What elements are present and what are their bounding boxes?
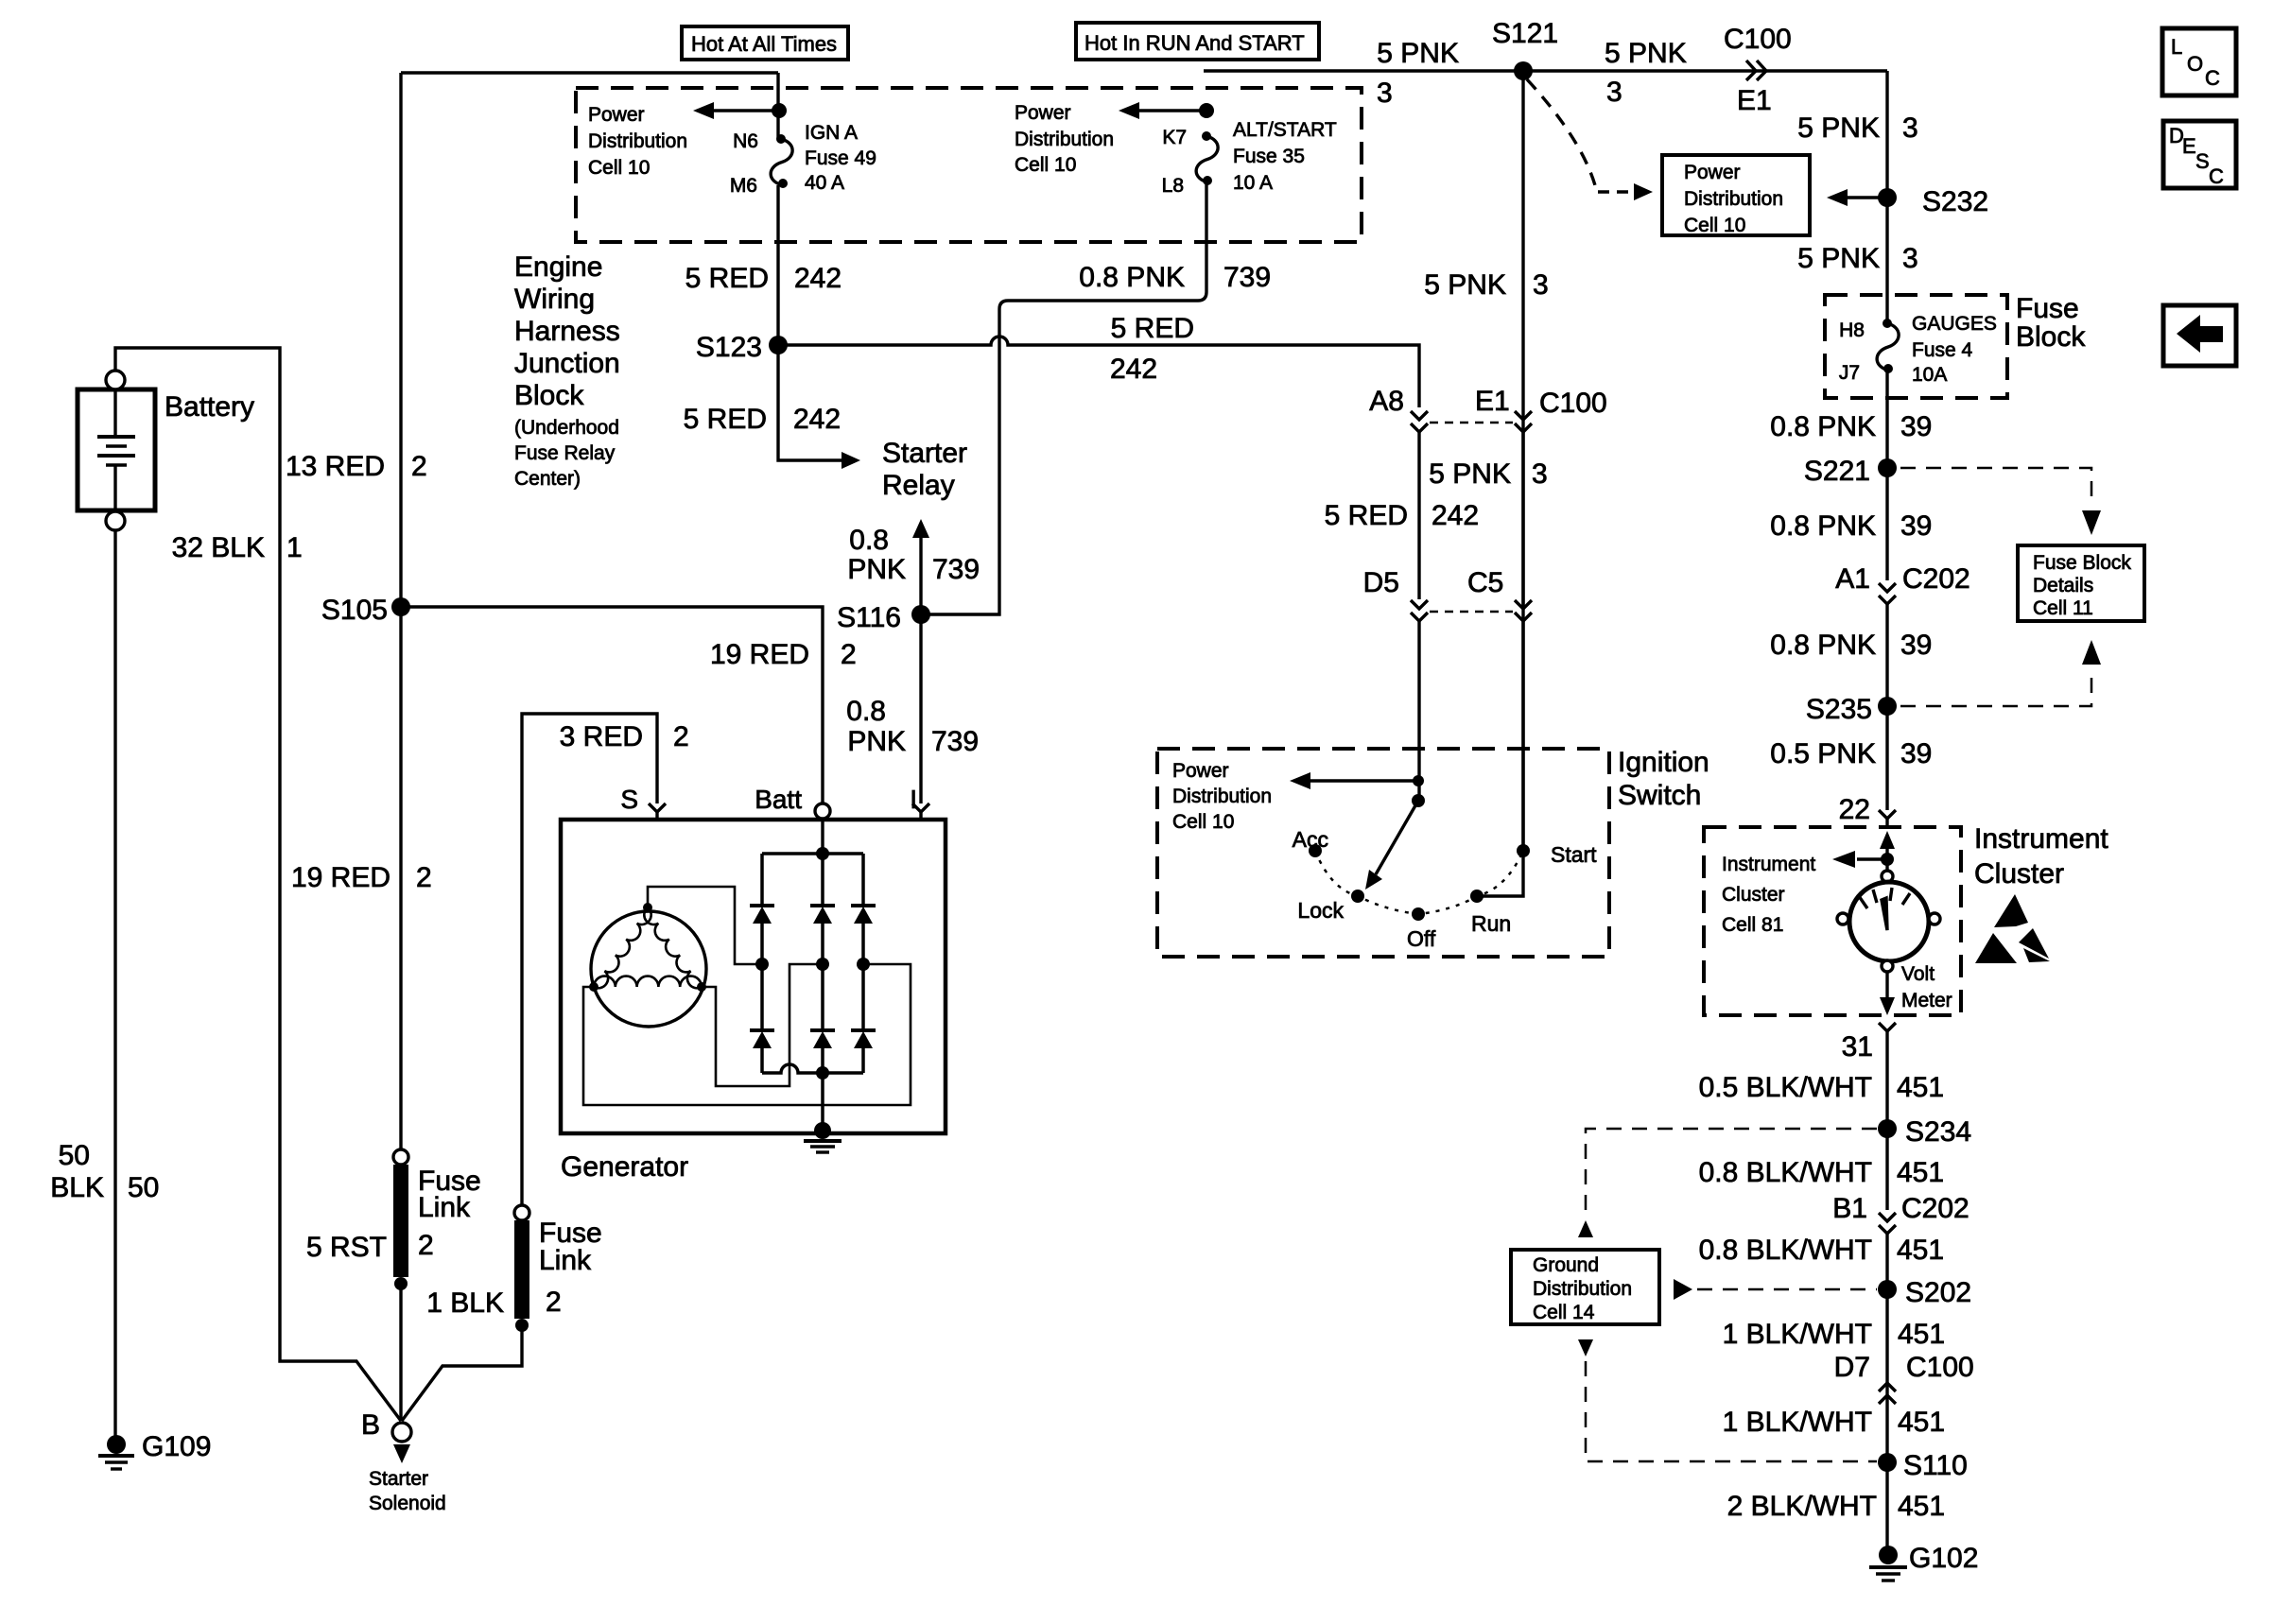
svg-text:5 RED: 5 RED: [685, 263, 769, 294]
svg-text:10 A: 10 A: [1233, 172, 1273, 194]
connector C100 chevrons on wire: [1746, 60, 1756, 80]
svg-text:Power: Power: [588, 104, 645, 126]
svg-text:Starter: Starter: [369, 1468, 428, 1490]
svg-text:2: 2: [841, 639, 857, 670]
svg-text:0.5 PNK: 0.5 PNK: [1770, 738, 1876, 769]
svg-text:Distribution: Distribution: [1172, 786, 1272, 807]
diode D2 top-middle: [821, 854, 824, 906]
svg-text:Cell 10: Cell 10: [588, 157, 650, 179]
svg-text:Hot At All Times: Hot At All Times: [691, 32, 837, 56]
svg-text:Distribution: Distribution: [1015, 129, 1114, 150]
svg-text:13 RED: 13 RED: [286, 451, 385, 482]
connector pin 31: [1879, 1023, 1896, 1031]
svg-text:451: 451: [1897, 1157, 1944, 1188]
svg-text:3: 3: [1902, 112, 1918, 144]
wire 13 RED 2 vertical from top feed to S105: [399, 73, 402, 1149]
svg-text:Fuse: Fuse: [2016, 293, 2079, 324]
svg-text:Details: Details: [2033, 575, 2093, 596]
wire S123 to A8 connector (5 RED 242) with hop over pink wire: [778, 337, 1419, 407]
wire top feed hot in run and start: [1204, 69, 1887, 72]
node S110: [1878, 1453, 1897, 1472]
component ground distribution box: [1511, 1250, 1659, 1324]
svg-text:5 RED: 5 RED: [1325, 500, 1408, 531]
ground G102: [1879, 1546, 1898, 1564]
node S105: [391, 597, 410, 616]
svg-text:D7: D7: [1834, 1352, 1870, 1383]
svg-text:PNK: PNK: [847, 726, 906, 757]
svg-text:19 RED: 19 RED: [291, 862, 390, 893]
dashed link S235 to fuse block details: [1900, 673, 2091, 706]
svg-text:Hot In RUN And START: Hot In RUN And START: [1084, 31, 1305, 55]
diode D1 top-left: [760, 854, 764, 906]
ignition contact Off: [1412, 907, 1425, 921]
svg-text:Harness: Harness: [514, 316, 620, 347]
generator winding lead bottom-right to middle diode mid: [702, 964, 823, 1086]
svg-text:C100: C100: [1906, 1352, 1974, 1383]
svg-text:0.8 PNK: 0.8 PNK: [1079, 262, 1185, 293]
svg-text:Power: Power: [1684, 162, 1741, 183]
svg-text:Start: Start: [1551, 842, 1597, 867]
ignition contact Lock: [1351, 890, 1364, 903]
svg-text:451: 451: [1898, 1491, 1945, 1522]
node S116: [911, 605, 930, 624]
svg-text:ALT/START: ALT/START: [1233, 119, 1337, 141]
symbol DESC box: [2163, 121, 2236, 188]
svg-text:3 RED: 3 RED: [560, 721, 643, 752]
svg-text:22: 22: [1839, 794, 1870, 825]
wire 5 PNK 3 from S121 down to ignition switch: [1521, 71, 1524, 851]
wire arrow to power distribution cell 10 (left): [709, 109, 779, 112]
svg-text:Block: Block: [2016, 321, 2086, 353]
svg-text:L: L: [2171, 35, 2182, 59]
wire 0.8 PNK 739 S116 down to generator I terminal: [919, 614, 922, 803]
svg-text:Instrument: Instrument: [1974, 823, 2108, 855]
wire volt meter to cluster exit: [1885, 972, 1888, 1000]
wire 0.5 BLK/WHT 451: [1885, 1038, 1888, 1129]
svg-text:A1: A1: [1835, 563, 1870, 595]
svg-text:5 RED: 5 RED: [684, 404, 767, 435]
node label Hot In RUN And START box: [1076, 23, 1319, 60]
wire 3 RED 2 generator S terminal loop: [522, 714, 657, 1205]
svg-text:0.8 BLK/WHT: 0.8 BLK/WHT: [1699, 1235, 1872, 1266]
generator terminal S connector: [649, 803, 666, 812]
volt meter gauge: [1882, 871, 1893, 882]
wire 50 BLK 50 battery negative to G109: [113, 530, 116, 1436]
svg-text:0.8: 0.8: [849, 525, 889, 556]
component fuse link (1 BLK 2): [514, 1205, 529, 1220]
svg-text:Block: Block: [514, 380, 584, 411]
svg-text:5 PNK: 5 PNK: [1797, 243, 1880, 274]
svg-text:242: 242: [794, 263, 842, 294]
wire 5 RED 242 to ignition (A8-D5): [1417, 430, 1420, 599]
svg-text:19 RED: 19 RED: [710, 639, 809, 670]
svg-text:2: 2: [418, 1230, 434, 1261]
svg-text:242: 242: [1110, 354, 1157, 385]
generator winding lead top to left diode mid: [648, 887, 762, 964]
svg-text:39: 39: [1900, 630, 1932, 661]
component instrument cluster dashed box: [1704, 827, 1961, 1015]
svg-text:Engine: Engine: [514, 251, 602, 283]
wire 5 RED 242 from fuse M6 to S123: [776, 185, 779, 345]
svg-text:5 PNK: 5 PNK: [1424, 269, 1506, 301]
wire arrow to power distribution cell 10 (middle): [1135, 109, 1206, 112]
svg-text:10A: 10A: [1912, 364, 1947, 386]
node S121: [1514, 61, 1533, 80]
svg-text:I: I: [910, 785, 917, 814]
svg-text:S116: S116: [837, 602, 901, 633]
dashed arrow S121 to power distribution cell 10 box: [1527, 79, 1595, 185]
svg-text:Relay: Relay: [882, 470, 955, 501]
svg-text:C100: C100: [1539, 388, 1607, 419]
svg-text:Off: Off: [1407, 926, 1436, 951]
svg-text:Power: Power: [1172, 760, 1229, 782]
wire 0.8 PNK 39 C202 to S235: [1885, 604, 1888, 706]
svg-text:Switch: Switch: [1618, 780, 1701, 811]
svg-text:BLK: BLK: [50, 1172, 104, 1203]
svg-text:Cell 10: Cell 10: [1015, 154, 1076, 176]
svg-text:39: 39: [1900, 510, 1932, 542]
component ignition switch dashed box: [1157, 749, 1609, 957]
svg-text:3: 3: [1902, 243, 1918, 274]
svg-text:5 PNK: 5 PNK: [1605, 38, 1687, 69]
svg-text:739: 739: [1223, 262, 1271, 293]
ignition contact Run: [1470, 890, 1484, 903]
ignition contact Acc: [1309, 844, 1322, 857]
junction dot cluster arrow tap: [1881, 853, 1894, 866]
svg-text:Power: Power: [1015, 102, 1071, 124]
svg-text:S234: S234: [1905, 1116, 1971, 1148]
battery internal symbol: [113, 389, 116, 437]
svg-text:(Underhood: (Underhood: [514, 417, 619, 439]
component fuse link (5 RST 2): [393, 1149, 408, 1165]
svg-text:C5: C5: [1467, 567, 1503, 598]
ignition contact Start: [1517, 844, 1530, 857]
svg-text:B: B: [361, 1409, 380, 1441]
ignition rotary dotted arc: [1315, 851, 1523, 914]
wire 5 RED 242 branch to starter relay: [778, 345, 849, 460]
svg-text:Center): Center): [514, 468, 581, 490]
battery terminal circle negative: [106, 511, 125, 530]
component fuse block dashed box: [1825, 295, 2007, 398]
ignition switch lever arrow: [1376, 801, 1418, 874]
svg-text:2: 2: [416, 862, 432, 893]
svg-text:D5: D5: [1363, 567, 1399, 598]
svg-text:50: 50: [128, 1172, 159, 1203]
ignition switch rotor contact: [1412, 794, 1425, 807]
wire 1 BLK/WHT 451 S202 to C100: [1885, 1289, 1888, 1405]
generator rectifier bottom rail with hop: [762, 1064, 863, 1073]
volt meter ticks and needle: [1859, 896, 1867, 908]
svg-text:Distribution: Distribution: [588, 130, 687, 152]
component Power Distribution Cell 10 box (right): [1662, 155, 1810, 235]
svg-text:S221: S221: [1804, 456, 1870, 487]
wire 0.8 BLK/WHT 451 to S202: [1885, 1234, 1888, 1289]
svg-text:Fuse Relay: Fuse Relay: [514, 442, 616, 464]
node S234: [1878, 1119, 1897, 1138]
svg-text:Fuse 35: Fuse 35: [1233, 146, 1305, 167]
diode D4 bottom-left: [760, 964, 764, 1030]
svg-text:Volt: Volt: [1901, 963, 1935, 985]
svg-text:J7: J7: [1839, 362, 1860, 384]
junction dot ALT fuse arrow tap: [1199, 103, 1214, 118]
svg-text:G109: G109: [142, 1431, 211, 1462]
generator terminal Batt circle: [815, 803, 830, 819]
svg-text:2: 2: [411, 451, 427, 482]
wire fuse link to B junction: [399, 1284, 402, 1421]
svg-text:1 BLK/WHT: 1 BLK/WHT: [1723, 1319, 1872, 1350]
svg-text:Fuse 49: Fuse 49: [805, 147, 876, 169]
svg-text:Cell 10: Cell 10: [1172, 811, 1234, 833]
svg-text:Generator: Generator: [561, 1151, 688, 1183]
svg-text:Cluster: Cluster: [1974, 858, 2064, 890]
svg-text:C: C: [2205, 66, 2220, 90]
svg-text:S235: S235: [1806, 694, 1872, 725]
svg-text:39: 39: [1900, 738, 1932, 769]
svg-text:31: 31: [1842, 1031, 1873, 1063]
generator terminal I connector: [912, 803, 929, 812]
svg-text:Cluster: Cluster: [1722, 884, 1785, 906]
generator rectifier top rail: [762, 852, 863, 855]
wire 0.8 PNK 739 from L8 down-left to S116: [921, 182, 1206, 614]
svg-text:S232: S232: [1922, 186, 1988, 217]
fuse ALT/START Fuse 35 10A element: [1196, 136, 1218, 182]
svg-text:C202: C202: [1901, 1193, 1969, 1224]
dashed link S221 to fuse block details: [1900, 468, 2091, 498]
svg-text:242: 242: [793, 404, 841, 435]
svg-text:5 RED: 5 RED: [1111, 313, 1194, 344]
svg-text:Ignition: Ignition: [1618, 747, 1709, 778]
svg-text:39: 39: [1900, 411, 1932, 442]
svg-text:32 BLK: 32 BLK: [172, 532, 265, 563]
svg-text:S: S: [2195, 149, 2210, 173]
svg-text:451: 451: [1897, 1235, 1944, 1266]
svg-text:0.5 BLK/WHT: 0.5 BLK/WHT: [1699, 1072, 1872, 1103]
wire 0.8 BLK/WHT 451 S234 to C202: [1885, 1129, 1888, 1210]
svg-text:0.8 BLK/WHT: 0.8 BLK/WHT: [1699, 1157, 1872, 1188]
svg-text:Battery: Battery: [165, 391, 254, 423]
svg-text:Run: Run: [1471, 911, 1511, 936]
svg-text:S110: S110: [1903, 1450, 1968, 1481]
component battery box: [78, 389, 155, 510]
svg-text:Instrument: Instrument: [1722, 854, 1815, 875]
wire 5 PNK 3 right column top: [1885, 71, 1888, 323]
wire 1 BLK/WHT 451 to S110: [1885, 1405, 1888, 1462]
wire arrow to instrument cluster label: [1857, 857, 1887, 860]
svg-text:C202: C202: [1902, 563, 1970, 595]
svg-text:GAUGES: GAUGES: [1912, 313, 1997, 335]
dashed arrow ground distribution to S202: [1674, 1279, 1692, 1300]
wire 32 BLK 1 battery positive to starter solenoid B: [115, 348, 401, 1421]
generator mid junction dots: [755, 958, 769, 971]
svg-text:K7: K7: [1162, 127, 1187, 148]
svg-text:G102: G102: [1909, 1543, 1978, 1574]
svg-text:C: C: [2209, 164, 2224, 188]
wire start-run jumper: [1477, 851, 1523, 896]
svg-text:S121: S121: [1492, 18, 1558, 49]
component fuse block details box: [2018, 545, 2144, 621]
wire 5 PNK 3 into ignition switch: [1521, 432, 1524, 609]
svg-text:451: 451: [1898, 1407, 1945, 1438]
node S202: [1878, 1280, 1897, 1299]
dashed link S234 to ground distribution: [1586, 1129, 1877, 1217]
svg-text:Link: Link: [539, 1245, 592, 1276]
svg-text:40 A: 40 A: [805, 172, 844, 194]
svg-text:S123: S123: [696, 332, 762, 363]
node S232: [1878, 188, 1897, 207]
svg-text:Distribution: Distribution: [1684, 188, 1783, 210]
svg-text:0.8: 0.8: [846, 696, 886, 727]
wire 2 BLK/WHT 451 S110 to G102: [1885, 1462, 1888, 1546]
svg-text:Solenoid: Solenoid: [369, 1493, 446, 1514]
wire 0.8 PNK 39 fuse to S221: [1885, 371, 1888, 468]
svg-text:5 PNK: 5 PNK: [1797, 112, 1880, 144]
wire 5 RED 242 into ignition switch: [1417, 621, 1420, 801]
svg-text:B1: B1: [1832, 1193, 1867, 1224]
svg-text:E1: E1: [1737, 85, 1772, 116]
svg-text:Lock: Lock: [1297, 898, 1344, 923]
svg-text:Cell 81: Cell 81: [1722, 914, 1783, 936]
svg-text:E: E: [2182, 134, 2196, 158]
svg-text:Ground: Ground: [1533, 1254, 1599, 1276]
junction dot power distribution arrow tap: [772, 103, 787, 118]
svg-text:Wiring: Wiring: [514, 284, 595, 315]
svg-text:L8: L8: [1162, 175, 1184, 197]
svg-text:S202: S202: [1905, 1277, 1971, 1308]
svg-text:1 BLK: 1 BLK: [426, 1287, 504, 1319]
svg-text:Cell 14: Cell 14: [1533, 1302, 1595, 1323]
svg-text:5 RST: 5 RST: [306, 1232, 387, 1263]
battery terminal circle positive: [106, 371, 125, 389]
wire 0.5 PNK 39 S235 to instrument cluster: [1885, 706, 1888, 810]
wire S105 to generator Batt terminal: [401, 607, 823, 803]
wire arrow S116 up to starter relay: [919, 535, 922, 614]
svg-text:2: 2: [546, 1287, 562, 1318]
dashed box underhood fuse block (power distribution): [576, 88, 1362, 242]
svg-text:PNK: PNK: [847, 554, 906, 585]
wire arrow ignition feed to power distribution: [1413, 775, 1424, 786]
ESD sensitive symbol: [1994, 894, 2028, 927]
generator internal batt lead: [821, 819, 824, 854]
svg-text:0.8 PNK: 0.8 PNK: [1770, 411, 1876, 442]
svg-text:E1: E1: [1475, 386, 1510, 417]
svg-text:Starter: Starter: [882, 438, 967, 469]
node S221: [1878, 458, 1897, 477]
svg-text:IGN A: IGN A: [805, 122, 858, 144]
svg-text:C100: C100: [1724, 24, 1792, 55]
symbol LOC box: [2162, 28, 2236, 95]
svg-text:Cell 10: Cell 10: [1684, 215, 1745, 236]
svg-text:Fuse Block: Fuse Block: [2033, 552, 2131, 574]
wire entry arrow into cluster: [1880, 831, 1895, 849]
wire IGN A fuse feed drop: [776, 73, 779, 139]
dashed link ground distribution down to S110: [1578, 1339, 1593, 1356]
svg-text:2 BLK/WHT: 2 BLK/WHT: [1727, 1491, 1877, 1522]
svg-text:S105: S105: [321, 595, 388, 626]
node S123: [769, 336, 788, 354]
fuse GAUGES Fuse 4 10A element: [1877, 323, 1899, 371]
generator winding lead bottom-left big loop to right diode mid: [583, 964, 911, 1105]
node label Hot At All Times box: [682, 26, 848, 60]
wire 0.8 PNK 39 S221 to C202: [1885, 468, 1888, 580]
svg-text:3: 3: [1377, 78, 1393, 109]
svg-text:Distribution: Distribution: [1533, 1278, 1632, 1300]
symbol back arrow box: [2163, 305, 2236, 366]
diode D3 top-right: [861, 854, 865, 906]
svg-text:1 BLK/WHT: 1 BLK/WHT: [1723, 1407, 1872, 1438]
diode D5 bottom-middle: [821, 964, 824, 1030]
svg-text:242: 242: [1431, 500, 1479, 531]
svg-text:5 PNK: 5 PNK: [1429, 458, 1511, 490]
svg-text:1: 1: [286, 532, 303, 563]
svg-text:M6: M6: [730, 175, 757, 197]
diode D6 bottom-right: [861, 964, 865, 1030]
svg-text:Fuse 4: Fuse 4: [1912, 339, 1973, 361]
svg-text:739: 739: [931, 726, 979, 757]
svg-text:O: O: [2187, 52, 2203, 76]
svg-text:Cell 11: Cell 11: [2033, 597, 2093, 619]
svg-text:2: 2: [673, 721, 689, 752]
generator ground lead: [821, 1073, 824, 1131]
wire top feed to IGN A fuse (hot at all times): [401, 71, 778, 74]
component generator box: [561, 820, 946, 1133]
generator stator delta winding: [594, 907, 651, 988]
generator ground dot and symbol: [814, 1122, 831, 1139]
wire arrow S232 into power distribution box: [1844, 196, 1887, 199]
svg-text:A8: A8: [1369, 386, 1404, 417]
svg-text:3: 3: [1532, 458, 1548, 490]
svg-text:451: 451: [1897, 1072, 1944, 1103]
fuse IGN A Fuse 49 40A element: [771, 139, 792, 185]
svg-text:Junction: Junction: [514, 348, 620, 379]
svg-text:S: S: [620, 785, 638, 814]
wire fuse link 2 to B junction: [402, 1325, 522, 1421]
svg-text:3: 3: [1606, 77, 1622, 108]
svg-text:739: 739: [932, 554, 980, 585]
svg-text:Link: Link: [418, 1192, 471, 1223]
svg-text:3: 3: [1533, 269, 1549, 301]
svg-text:5 PNK: 5 PNK: [1377, 38, 1459, 69]
svg-text:0.8 PNK: 0.8 PNK: [1770, 510, 1876, 542]
svg-text:Meter: Meter: [1901, 990, 1952, 1011]
node S235: [1878, 697, 1897, 716]
svg-text:N6: N6: [733, 130, 758, 152]
svg-text:Acc: Acc: [1293, 827, 1328, 852]
svg-text:0.8 PNK: 0.8 PNK: [1770, 630, 1876, 661]
svg-text:H8: H8: [1839, 320, 1865, 341]
svg-text:451: 451: [1898, 1319, 1945, 1350]
ground G109: [107, 1435, 126, 1454]
svg-text:Batt: Batt: [755, 785, 802, 814]
svg-text:50: 50: [59, 1140, 90, 1171]
generator stator circle: [591, 911, 706, 1027]
